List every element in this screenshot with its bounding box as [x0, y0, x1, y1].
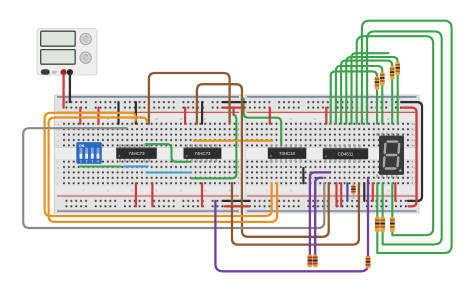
wire green R4 lead to row a — [397, 75, 399, 124]
wire black jumper -rail to row a col11 — [117, 102, 119, 124]
resistor R11 on board — [351, 183, 355, 199]
wire red right edge top to bottom rail — [402, 108, 417, 207]
ic U3 74HC10 — [268, 144, 307, 162]
wire green R1 lead to row a — [376, 89, 378, 124]
resistor R5 — [375, 217, 380, 233]
wire red jumper row j to +rail col57 — [340, 183, 342, 206]
7-segment display DS1 — [376, 133, 404, 178]
resistor R7 — [390, 217, 395, 233]
wire black rail bridge top — [223, 101, 246, 103]
wire green R7 top lead to row j — [391, 183, 393, 217]
wire green segment e CD4511 short loop — [352, 53, 389, 124]
wire green R3 lead to row a — [391, 79, 393, 124]
wire black right edge top to bottom rail — [402, 102, 422, 201]
wire green DIP row g — [80, 165, 121, 167]
wire purple row i to R9 — [315, 178, 322, 257]
wire red jumper +rail to row a col42 — [269, 108, 271, 124]
wire brown loop B through seam to row j — [197, 84, 329, 237]
svg-text:CD4511: CD4511 — [338, 151, 354, 156]
ic U1 74HC73 — [116, 144, 157, 162]
resistor R1 — [375, 76, 380, 90]
wire red jumper +rail to row a col25 — [184, 108, 186, 124]
wire purple row h to R10 — [367, 178, 369, 258]
wire red rail bridge bottom — [225, 205, 249, 207]
wire green R6 bottom lead — [382, 232, 384, 245]
breadboard (two half-boards with center seam) — [55, 95, 420, 213]
resistor R4 — [395, 62, 400, 76]
resistor R9 — [313, 255, 318, 268]
wire green segment h big loop to R6 — [367, 31, 442, 244]
wire green R5 top lead to row j — [376, 183, 378, 217]
wire green R6 top lead to row j — [382, 183, 384, 217]
wire red jumper +rail to row a col6 — [79, 108, 81, 124]
wire brown bottom U2 — [232, 183, 359, 244]
wire purple ground run — [215, 201, 368, 271]
wire green label row to row i — [191, 115, 236, 178]
wire green segment g big loop to R5 — [362, 21, 452, 253]
svg-text:4: 4 — [97, 160, 99, 164]
resistor R6 — [380, 217, 385, 233]
wire blue row g — [124, 165, 148, 167]
wire black PSU to -rail — [69, 74, 71, 103]
wire black jumper -rail to row a col28 — [201, 102, 203, 124]
resistor R10 — [366, 256, 371, 269]
svg-text:1: 1 — [80, 160, 82, 164]
ic U4 CD4511 — [323, 144, 368, 162]
ic U2 74HC73 — [184, 144, 222, 162]
svg-text:2: 2 — [86, 160, 88, 164]
wire green R7 bottom lead — [391, 232, 393, 235]
wire gray big loop — [23, 128, 324, 228]
wire red jumper row j to +rail col18 — [151, 183, 153, 206]
wire red rail bridge top — [224, 106, 245, 108]
wire green segment d CD4511 to R4 — [346, 57, 397, 124]
wire brown loop A top — [149, 73, 230, 124]
svg-text:74HC73: 74HC73 — [194, 151, 211, 156]
wire green segment f big loop to R7 — [357, 36, 434, 235]
wire red jumper +rail to row a col54 — [325, 108, 327, 124]
wire red stub center — [233, 108, 235, 115]
svg-text:74HC10: 74HC10 — [279, 151, 296, 156]
resistor R2 — [380, 72, 385, 86]
wire blue row h — [147, 171, 192, 173]
resistor R3 — [390, 66, 395, 80]
svg-text:3: 3 — [91, 160, 93, 164]
wire orange left loop outer — [45, 113, 272, 216]
wire red jumper +rail to row a col7 — [97, 108, 99, 124]
wire orange row d U2 to U3 — [194, 140, 272, 142]
wire green U1 to row f — [146, 144, 190, 162]
svg-text:ON: ON — [79, 144, 85, 148]
wire red jumper row j to rail col under display left — [372, 183, 374, 201]
resistor R8 — [308, 255, 313, 268]
wire red jumper row j to rail col under display right — [394, 183, 396, 201]
wire red PSU to +rail — [62, 74, 64, 108]
dip switch S1 — [77, 143, 102, 164]
wire red jumper row j to +rail col56 — [335, 183, 337, 206]
wire black jumper row j to rail col62 — [363, 183, 365, 201]
wire black jumper row g to row j — [302, 168, 304, 183]
wire green segment b CD4511 to R2 — [336, 66, 382, 124]
wire dark blue jumper row j to rail — [346, 183, 348, 201]
svg-text:74HC73: 74HC73 — [128, 151, 145, 156]
wire red jumper row j to +rail col15 — [135, 183, 137, 206]
wire green seam to U3 — [244, 99, 282, 146]
wire purple row h to R8 — [310, 172, 330, 257]
wire green R2 lead to row a — [381, 85, 383, 124]
wire green R5 bottom lead — [376, 232, 378, 253]
power supply — [37, 29, 97, 76]
wire black rail bridge bottom — [223, 200, 249, 202]
wire green segment a CD4511 to R1 — [331, 71, 377, 123]
wire black jumper -rail to row a col15 — [135, 102, 137, 124]
wire green segment c CD4511 to R3 — [341, 61, 392, 124]
wire red jumper row j to +rail col28 — [201, 183, 203, 206]
wire orange left loop inner — [49, 118, 278, 222]
